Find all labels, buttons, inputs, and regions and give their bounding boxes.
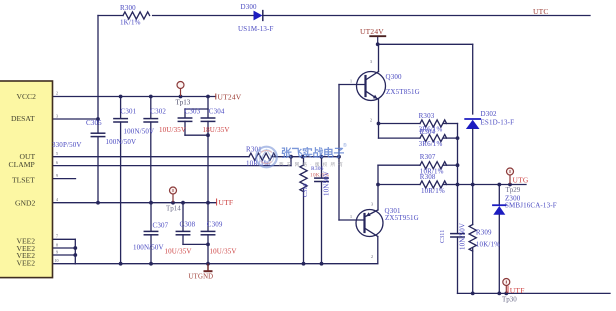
capacitor C304	[207, 109, 209, 118]
svg-text:C301: C301	[121, 108, 137, 116]
wire top UTC net	[98, 15, 123, 17]
resistor R308	[378, 184, 420, 186]
svg-text:1K/1%: 1K/1%	[120, 19, 141, 27]
svg-text:3: 3	[370, 59, 372, 64]
svg-text:C303: C303	[185, 108, 201, 116]
svg-text:R308: R308	[420, 173, 436, 181]
capacitor C309	[207, 203, 209, 232]
svg-text:3: 3	[371, 202, 373, 207]
resistor R300	[123, 12, 150, 19]
svg-text:C310: C310	[303, 183, 309, 197]
svg-text:SMBJ16CA-13-F: SMBJ16CA-13-F	[505, 201, 557, 209]
ground symbol UTGND	[204, 264, 213, 272]
wire VEE2 pin stubs	[53, 238, 76, 240]
diode D300	[254, 11, 263, 21]
wire common base column	[338, 85, 340, 221]
svg-text:UTF: UTF	[219, 198, 234, 207]
svg-text:1: 1	[350, 79, 352, 84]
wire UT24V node to D302 column	[378, 43, 473, 45]
wire vertical DESAT sense column	[97, 16, 99, 134]
capacitor C311	[457, 185, 459, 234]
svg-text:7: 7	[56, 234, 58, 239]
svg-text:VEE2: VEE2	[17, 258, 36, 267]
svg-text:Tp14: Tp14	[166, 204, 181, 212]
svg-text:D302: D302	[481, 110, 498, 118]
svg-text:张飞实战电子: 张飞实战电子	[281, 146, 344, 160]
net label UT24V right of rail	[215, 94, 217, 100]
wire VEE2 UTGND rail	[75, 263, 378, 265]
svg-text:10U/35V: 10U/35V	[165, 247, 192, 255]
svg-text:10: 10	[55, 258, 59, 263]
capacitor C301	[120, 97, 122, 119]
svg-text:R304: R304	[419, 128, 435, 136]
svg-text:ZX5T951G: ZX5T951G	[385, 214, 419, 222]
svg-text:6: 6	[56, 160, 58, 165]
svg-text:VCC2: VCC2	[17, 92, 37, 101]
resistor R303	[379, 123, 421, 125]
svg-text:UT24V: UT24V	[218, 92, 242, 101]
svg-text:C311: C311	[440, 230, 446, 243]
svg-text:3: 3	[56, 113, 58, 118]
svg-text:Tp13: Tp13	[176, 99, 191, 107]
svg-text:CLAMP: CLAMP	[9, 160, 35, 169]
svg-text:UTG: UTG	[513, 175, 529, 184]
net label UTF mid	[216, 199, 218, 206]
capacitor C303	[207, 97, 209, 110]
svg-text:R300: R300	[120, 4, 136, 12]
svg-text:Tp30: Tp30	[502, 295, 517, 303]
test point Tp29	[507, 168, 514, 184]
svg-text:100N/50V: 100N/50V	[133, 244, 164, 252]
svg-text:ES1D-13-F: ES1D-13-F	[481, 118, 515, 126]
svg-text:10K/1%: 10K/1%	[476, 240, 500, 248]
svg-text:UTGND: UTGND	[189, 274, 214, 281]
svg-text:10U/35V: 10U/35V	[210, 247, 237, 255]
svg-text:C307: C307	[153, 221, 169, 229]
wire VCC2 rail	[53, 96, 216, 98]
capacitor C302	[150, 97, 152, 119]
svg-text:5: 5	[56, 151, 58, 156]
wire OUT row	[53, 156, 250, 158]
resistor R306 vertical	[303, 157, 305, 165]
wire R300 to D300	[153, 15, 254, 17]
svg-text:C309: C309	[207, 220, 223, 228]
test point Tp13	[177, 82, 184, 97]
svg-text:10N/50V: 10N/50V	[459, 223, 467, 250]
resistor R307	[378, 164, 420, 166]
transistor Q301	[377, 165, 379, 210]
transistor Q300	[357, 72, 386, 101]
svg-text:10R/1%: 10R/1%	[421, 187, 445, 195]
wire GND2 UTF row	[53, 202, 217, 204]
svg-text:®: ®	[343, 142, 347, 149]
capacitor C308	[182, 203, 184, 232]
svg-text:D300: D300	[241, 3, 258, 11]
svg-text:1: 1	[350, 214, 352, 219]
svg-text:UTF: UTF	[510, 286, 525, 295]
svg-text:2: 2	[370, 118, 372, 123]
capacitor C305	[91, 132, 104, 134]
net label UTF bottom	[507, 286, 509, 293]
IC U300 gate driver body	[0, 81, 53, 278]
capacitor C310	[321, 157, 323, 178]
power symbol UT24V	[369, 35, 386, 37]
svg-text:10U/35V: 10U/35V	[159, 126, 186, 134]
svg-text:C305: C305	[86, 119, 102, 127]
wire UTG rail	[458, 184, 527, 186]
zener Z300	[498, 185, 500, 206]
svg-text:C304: C304	[209, 108, 225, 116]
svg-text:2: 2	[371, 254, 373, 259]
svg-text:UT24V: UT24V	[360, 27, 384, 36]
watermark logo circle	[256, 147, 277, 168]
svg-text:TLSET: TLSET	[12, 176, 35, 185]
svg-text:Tp29: Tp29	[506, 186, 521, 194]
svg-text:DESAT: DESAT	[11, 114, 35, 123]
wire DESAT stub	[53, 118, 99, 120]
svg-text:100N/50V: 100N/50V	[124, 127, 155, 135]
svg-text:R303: R303	[419, 112, 435, 120]
svg-text:9: 9	[56, 249, 58, 254]
svg-text:C308: C308	[180, 220, 196, 228]
svg-text:C302: C302	[150, 108, 166, 116]
svg-text:3R6/1%: 3R6/1%	[419, 140, 443, 148]
svg-text:UTC: UTC	[533, 7, 549, 16]
wire UTF bottom rail	[458, 292, 611, 294]
svg-text:100N/50V: 100N/50V	[106, 138, 137, 146]
resistor R309 vertical	[472, 185, 474, 225]
svg-text:GND2: GND2	[15, 199, 35, 208]
svg-text:R307: R307	[420, 153, 436, 161]
svg-text:西安网络·版权所有: 西安网络·版权所有	[279, 161, 346, 168]
diode D302	[465, 118, 480, 120]
wire TLSET stub	[53, 178, 76, 180]
svg-text:R309: R309	[476, 228, 492, 236]
svg-text:2: 2	[56, 91, 58, 96]
wire CLAMP row	[53, 165, 292, 167]
test point Tp30	[503, 279, 510, 294]
svg-text:Q300: Q300	[386, 73, 403, 81]
resistor R301	[249, 153, 276, 160]
capacitor C307	[150, 203, 152, 232]
svg-text:ZX5T851G: ZX5T851G	[386, 88, 420, 96]
wire D300 to UTC label end	[263, 15, 590, 17]
svg-text:330P/50V: 330P/50V	[52, 141, 82, 149]
svg-text:10N50V: 10N50V	[323, 171, 331, 196]
svg-text:US1M-13-F: US1M-13-F	[238, 25, 274, 33]
svg-text:8: 8	[56, 242, 58, 247]
wire C303/C304 junction down to UTF rail	[207, 135, 209, 203]
svg-text:9: 9	[56, 173, 58, 178]
svg-text:18U/35V: 18U/35V	[203, 126, 230, 134]
test point Tp14	[170, 187, 177, 202]
resistor R304	[378, 124, 380, 139]
svg-text:4: 4	[56, 197, 58, 202]
